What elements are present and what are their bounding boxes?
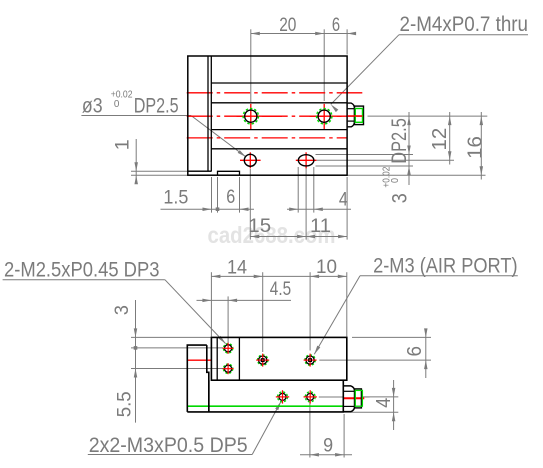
top view internal horizontal edges — [211, 82, 347, 84]
green line lower body bottom view — [188, 405, 343, 407]
svg-text:ø3: ø3 — [82, 95, 103, 118]
svg-text:0: 0 — [114, 98, 120, 110]
red centerline fitting bottom view — [344, 397, 365, 399]
hex fitting top view — [348, 103, 355, 127]
dimension 14 and 10 bottom view — [211, 275, 346, 277]
right side extension lines top view — [368, 115, 488, 117]
svg-text:4.5: 4.5 — [270, 279, 291, 300]
top view bottom tab — [218, 171, 240, 175]
bottom view upper rect inner verticals — [216, 337, 218, 380]
hole M3 air port left C — [258, 355, 268, 365]
svg-text:DP2.5: DP2.5 — [134, 95, 179, 118]
thread stud green lines top view — [355, 109, 362, 123]
svg-text:5.5: 5.5 — [115, 391, 136, 417]
hole circle M4 right black — [318, 110, 330, 122]
dimension 4 right bottom view — [362, 396, 399, 398]
dimension 4 slot width top view — [287, 208, 351, 210]
svg-text:15: 15 — [248, 216, 271, 237]
svg-text:3: 3 — [112, 305, 133, 315]
red centerline through stud — [348, 115, 363, 117]
bottom view upper rect slide table — [211, 337, 346, 380]
svg-text:6: 6 — [226, 187, 235, 208]
svg-text:12: 12 — [429, 128, 451, 151]
svg-text:14: 14 — [227, 258, 248, 279]
red cross hole M4 right — [323, 104, 325, 130]
red centerline upper bore top view — [187, 92, 363, 94]
svg-text:2x2-M3xP0.5 DP5: 2x2-M3xP0.5 DP5 — [89, 434, 248, 457]
hole M3 air port right D — [305, 355, 315, 365]
thread circle M4 right green — [317, 109, 332, 124]
thread stud bottom view — [355, 389, 362, 408]
dimension 15 and 11 — [250, 236, 347, 238]
svg-text:10: 10 — [316, 257, 337, 278]
red centerline lower bore top view — [187, 137, 348, 139]
hex fitting bottom view — [344, 386, 355, 412]
top view left plate bottom edge — [188, 170, 212, 172]
top view left plate double line — [207, 56, 209, 171]
dimension 6 right bottom view — [352, 336, 431, 338]
dimension 12 rotated — [449, 112, 451, 165]
hole M3 bottom left E — [278, 392, 288, 402]
thread stud green bottom view — [355, 390, 362, 406]
svg-text:4: 4 — [373, 398, 395, 408]
thread stud top view — [355, 106, 364, 125]
svg-text:1.5: 1.5 — [163, 187, 188, 208]
thread circle M4 left green — [243, 109, 258, 124]
hole M2.5 lower B — [223, 364, 232, 373]
dimension 5.5 left bottom view — [131, 368, 224, 370]
slot right black ellipse — [298, 155, 314, 166]
top view body outline — [188, 56, 347, 175]
bottom view lower body — [187, 380, 343, 412]
hole M2.5 upper A — [223, 344, 232, 353]
svg-text:20: 20 — [279, 15, 296, 36]
svg-text:+0.02: +0.02 — [381, 166, 393, 187]
red centerline holes axis top view — [187, 115, 363, 117]
dimension 16 rotated — [480, 112, 482, 180]
dimension DP2.5 and 3 +0.02 rotated — [408, 112, 410, 185]
red centerline left piece bottom view — [188, 359, 212, 361]
red cross slot right — [305, 152, 307, 168]
grey centerline extension holes bottom view — [319, 396, 343, 398]
svg-text:2-M2.5xP0.45 DP3: 2-M2.5xP0.45 DP3 — [4, 259, 160, 282]
pin hole left black circle — [244, 154, 256, 166]
bottom view left end piece — [187, 345, 209, 412]
svg-text:2-M3 (AIR PORT): 2-M3 (AIR PORT) — [373, 255, 517, 278]
dimension 9 bottom view — [309, 403, 311, 458]
bottom dimension line 1.5 and 6 — [161, 208, 255, 210]
hole M3 bottom right F — [305, 392, 315, 402]
dimension 3 left bottom view — [131, 336, 211, 338]
top dimension 20 — [251, 33, 356, 35]
hole circle M4 left black — [245, 110, 257, 122]
top dimension 6 — [347, 32, 356, 36]
svg-text:16: 16 — [465, 136, 487, 159]
red cross pin hole left — [249, 152, 251, 168]
svg-text:1: 1 — [113, 139, 134, 150]
dimension 1 left side — [131, 170, 212, 172]
svg-text:6: 6 — [332, 15, 340, 36]
svg-text:3: 3 — [389, 193, 412, 203]
svg-text:0: 0 — [389, 178, 401, 183]
svg-text:9: 9 — [323, 436, 333, 457]
svg-text:DP2.5: DP2.5 — [388, 118, 411, 164]
svg-text:11: 11 — [310, 216, 331, 237]
red cross hole M4 left — [250, 104, 252, 130]
svg-text:2-M4xP0.7 thru: 2-M4xP0.7 thru — [400, 13, 529, 36]
dimension 4.5 bottom view — [197, 299, 292, 301]
svg-text:6: 6 — [404, 346, 426, 357]
